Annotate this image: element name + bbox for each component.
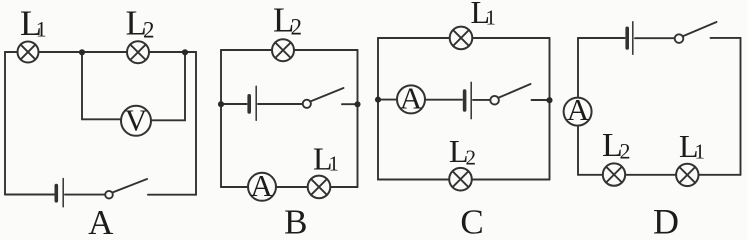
wire C middle branch left [378, 99, 397, 101]
label L2 (circuit C) [449, 133, 476, 170]
wire A left side [4, 52, 6, 195]
label L1 (circuit D) [679, 128, 705, 164]
switch S-C [490, 84, 530, 104]
node A-j2 (junction dot right) [182, 49, 188, 55]
wire D battery to switch [635, 37, 675, 39]
wire C ammeter to battery [425, 99, 462, 101]
wire A voltmeter branch left [82, 52, 121, 119]
wire B switch to right [342, 103, 358, 105]
wire D right side [740, 38, 742, 175]
svg-text:1: 1 [695, 140, 706, 164]
wire A right side [195, 52, 197, 195]
lamp L2 (circuit C) [449, 168, 472, 191]
wire D bottom [578, 174, 741, 176]
svg-text:1: 1 [36, 17, 47, 42]
wire B middle branch left [221, 103, 247, 105]
ammeter A1 (circuit B) [248, 168, 276, 203]
wire B top [221, 49, 358, 51]
lamp L1 (circuit A) [18, 42, 39, 63]
lamp L2 (circuit D) [603, 163, 625, 185]
svg-text:2: 2 [291, 15, 303, 40]
switch S-A [105, 179, 147, 199]
wire A voltmeter branch right [151, 52, 185, 120]
label L2 (circuit B) [273, 1, 302, 40]
wire A top (node L1-L2 rail) [5, 51, 196, 53]
svg-text:V: V [125, 102, 148, 137]
svg-text:B: B [284, 203, 307, 237]
wire A switch to right corner [148, 194, 196, 196]
svg-text:2: 2 [466, 146, 477, 170]
wire C switch to right [532, 99, 550, 101]
node C-j1 (junction dot left) [375, 97, 381, 103]
svg-text:A: A [400, 80, 423, 115]
ammeter A1 (circuit C) [397, 80, 425, 115]
wire D left side [577, 38, 579, 175]
node C-j2 (junction dot right) [546, 97, 552, 103]
node A-j1 (junction dot left) [79, 49, 85, 55]
label L1 (circuit B) [313, 141, 339, 177]
label L1 (circuit C) [471, 0, 497, 30]
svg-text:A: A [250, 168, 273, 203]
wire A battery to switch [65, 194, 105, 196]
voltmeter V1 [121, 102, 151, 137]
lamp L2 (circuit A) [127, 41, 149, 63]
svg-text:C: C [460, 203, 483, 237]
label L2 (circuit D) [602, 127, 631, 164]
lamp L2 (circuit B) [272, 39, 294, 61]
svg-text:1: 1 [329, 152, 340, 176]
svg-text:1: 1 [486, 6, 497, 30]
ammeter A1 (circuit D) [564, 92, 592, 127]
wire C battery to switch [473, 99, 490, 101]
node B-j2 (junction dot right) [354, 101, 360, 107]
lamp L1 (circuit B) [308, 176, 331, 199]
svg-text:A: A [88, 203, 114, 236]
wire B right side [357, 50, 359, 187]
svg-text:2: 2 [620, 139, 631, 164]
battery BT-D [627, 22, 633, 55]
wire C left side [377, 38, 379, 180]
wire C bottom [378, 179, 550, 181]
wire B bottom [221, 186, 358, 188]
wire D top left [578, 37, 625, 39]
svg-text:2: 2 [143, 18, 155, 43]
label L2 (circuit A) [126, 4, 155, 43]
battery BT-C [465, 82, 472, 118]
battery BT-A [56, 179, 63, 207]
wire D switch to right corner [711, 37, 741, 39]
wire A bottom left [5, 194, 54, 196]
switch S-B [303, 88, 344, 108]
wire B left side [220, 50, 222, 187]
svg-text:A: A [567, 92, 590, 127]
switch S-D [675, 22, 717, 43]
node B-j1 (junction dot left) [218, 101, 224, 107]
label L1 (circuit A) [20, 3, 47, 43]
wire C top [378, 37, 550, 39]
lamp L1 (circuit C) [450, 27, 473, 50]
battery BT-B [249, 86, 256, 120]
lamp L1 (circuit D) [676, 164, 698, 186]
wire B battery to switch [258, 103, 302, 105]
svg-text:D: D [653, 202, 679, 237]
wire C right side [549, 38, 551, 180]
